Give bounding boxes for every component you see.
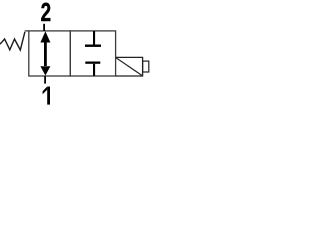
- blocked port T top (right square): [85, 31, 101, 47]
- port 2 line: [43, 24, 45, 31]
- blocked port T bottom (right square): [85, 62, 100, 76]
- port 1 label: [43, 87, 50, 105]
- spring: [0, 32, 25, 50]
- flow arrow (double-headed, left square): [40, 31, 50, 75]
- solenoid diagonal: [116, 58, 142, 76]
- valve body right square: [70, 31, 115, 76]
- valve body left square: [29, 31, 71, 76]
- solenoid terminal stub: [143, 61, 149, 72]
- port 1 line: [44, 76, 46, 84]
- top line extension at spring anchor: [25, 30, 30, 32]
- svg-text:2: 2: [41, 0, 51, 27]
- solenoid box: [116, 57, 143, 76]
